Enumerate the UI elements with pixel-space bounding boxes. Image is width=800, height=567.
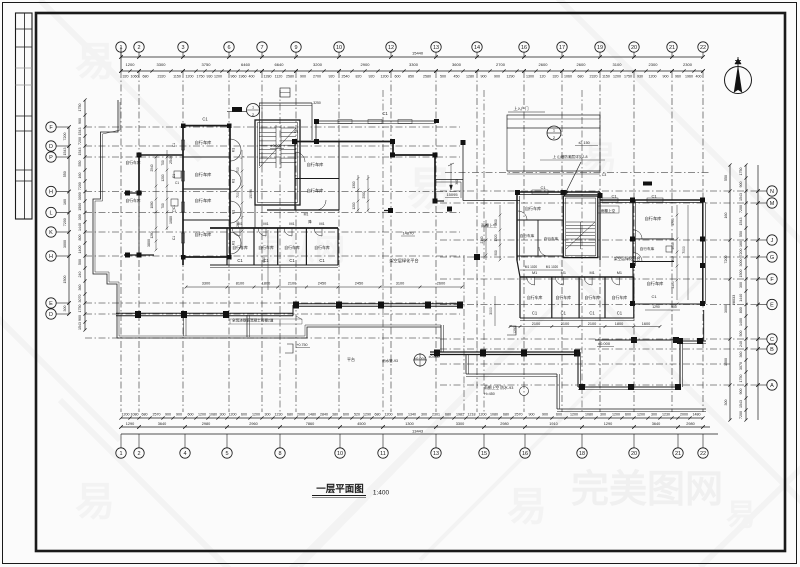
svg-text:5: 5 xyxy=(225,451,228,457)
svg-text:6640: 6640 xyxy=(275,62,285,67)
svg-text:3000: 3000 xyxy=(489,307,493,315)
svg-text:13: 13 xyxy=(433,45,439,51)
svg-text:960: 960 xyxy=(231,75,237,79)
svg-text:G: G xyxy=(770,255,774,261)
svg-text:800: 800 xyxy=(739,307,743,313)
svg-text:1750: 1750 xyxy=(739,168,743,176)
svg-text:C1: C1 xyxy=(611,194,617,199)
svg-text:雨棚上空: 雨棚上空 xyxy=(601,208,616,213)
svg-text:1981: 1981 xyxy=(456,413,464,417)
svg-text:950: 950 xyxy=(671,256,675,262)
svg-text:1200: 1200 xyxy=(186,75,194,79)
svg-text:自行车库: 自行车库 xyxy=(544,236,559,241)
svg-text:C1: C1 xyxy=(237,258,243,263)
svg-text:±0.000: ±0.000 xyxy=(598,341,611,346)
svg-text:20: 20 xyxy=(631,45,637,51)
svg-text:3000: 3000 xyxy=(78,192,82,200)
svg-text:1500: 1500 xyxy=(724,358,728,366)
svg-text:500: 500 xyxy=(78,259,82,265)
svg-text:300: 300 xyxy=(421,413,427,417)
svg-text:3070: 3070 xyxy=(739,362,743,370)
svg-text:600: 600 xyxy=(397,413,403,417)
svg-text:1: 1 xyxy=(252,106,254,110)
svg-text:900: 900 xyxy=(176,413,182,417)
svg-text:360: 360 xyxy=(78,285,82,291)
svg-text:自行车库: 自行车库 xyxy=(640,246,655,251)
svg-text:2100: 2100 xyxy=(288,282,296,286)
svg-text:700: 700 xyxy=(236,192,240,198)
svg-text:3600: 3600 xyxy=(452,62,462,67)
svg-text:680: 680 xyxy=(375,413,381,417)
svg-text:1290: 1290 xyxy=(604,422,612,426)
svg-text:2450: 2450 xyxy=(355,282,363,286)
svg-text:6: 6 xyxy=(227,45,230,51)
svg-text:M1: M1 xyxy=(232,148,236,153)
svg-text:6460: 6460 xyxy=(241,62,251,67)
svg-text:2000: 2000 xyxy=(680,413,688,417)
svg-text:3300: 3300 xyxy=(409,62,419,67)
svg-text:360: 360 xyxy=(739,352,743,358)
svg-text:1080: 1080 xyxy=(585,413,593,417)
svg-text:3100: 3100 xyxy=(396,282,404,286)
svg-text:380: 380 xyxy=(332,413,338,417)
svg-text:1400: 1400 xyxy=(739,318,743,326)
svg-text:320: 320 xyxy=(553,75,559,79)
svg-text:P: P xyxy=(49,155,53,161)
svg-text:F: F xyxy=(770,277,774,283)
svg-text:1080: 1080 xyxy=(490,413,498,417)
svg-text:K: K xyxy=(49,230,53,236)
svg-text:10: 10 xyxy=(337,451,343,457)
svg-text:900: 900 xyxy=(663,75,669,79)
svg-text:1750: 1750 xyxy=(624,75,632,79)
svg-text:雨水管-93: 雨水管-93 xyxy=(382,358,398,363)
svg-text:3000: 3000 xyxy=(724,305,728,313)
svg-text:3100: 3100 xyxy=(613,62,623,67)
svg-text:M1: M1 xyxy=(589,271,594,275)
svg-text:自行车库: 自行车库 xyxy=(525,205,541,211)
svg-text:2301: 2301 xyxy=(432,413,440,417)
svg-text:10: 10 xyxy=(336,45,342,51)
svg-text:2580: 2580 xyxy=(423,75,431,79)
svg-text:700: 700 xyxy=(161,203,165,209)
svg-text:550: 550 xyxy=(63,171,67,177)
svg-text:300: 300 xyxy=(600,413,606,417)
svg-text:1200: 1200 xyxy=(613,75,621,79)
svg-text:3800: 3800 xyxy=(147,239,151,247)
svg-text:160: 160 xyxy=(724,213,728,219)
svg-text:2140: 2140 xyxy=(480,236,484,243)
svg-text:1200: 1200 xyxy=(252,413,260,417)
svg-text:M1: M1 xyxy=(532,271,537,275)
svg-text:21: 21 xyxy=(675,451,681,457)
svg-text:300: 300 xyxy=(494,219,498,225)
svg-text:1060: 1060 xyxy=(131,75,139,79)
svg-text:2700: 2700 xyxy=(313,75,321,79)
svg-text:C1: C1 xyxy=(651,294,657,299)
svg-text:1750: 1750 xyxy=(78,305,82,313)
svg-text:1440: 1440 xyxy=(739,294,743,302)
svg-text:300: 300 xyxy=(78,214,82,220)
svg-text:1150: 1150 xyxy=(173,75,181,79)
svg-text:平台: 平台 xyxy=(347,356,355,362)
svg-text:1080: 1080 xyxy=(169,216,173,224)
svg-text:300: 300 xyxy=(739,282,743,288)
svg-text:680: 680 xyxy=(142,413,148,417)
svg-text:M1: M1 xyxy=(617,271,622,275)
svg-text:H: H xyxy=(49,254,53,260)
svg-text:2100: 2100 xyxy=(561,322,569,326)
svg-text:3250: 3250 xyxy=(313,101,321,105)
svg-text:1750: 1750 xyxy=(197,75,205,79)
svg-text:1543: 1543 xyxy=(739,218,743,226)
svg-text:300: 300 xyxy=(455,179,459,185)
svg-text:A: A xyxy=(770,383,774,389)
svg-text:C1: C1 xyxy=(532,311,538,316)
svg-text:1200: 1200 xyxy=(198,413,206,417)
svg-text:1:400: 1:400 xyxy=(373,490,390,497)
svg-text:3000: 3000 xyxy=(739,259,743,267)
svg-text:900: 900 xyxy=(529,413,535,417)
svg-text:3300: 3300 xyxy=(157,62,167,67)
svg-text:易: 易 xyxy=(407,163,453,215)
svg-text:C: C xyxy=(770,337,774,343)
svg-text:M1 1020: M1 1020 xyxy=(525,265,538,269)
svg-text:M1: M1 xyxy=(319,222,324,226)
svg-text:上 山墙防潮层详见2-8: 上 山墙防潮层详见2-8 xyxy=(553,154,588,159)
svg-text:M1 1020: M1 1020 xyxy=(546,265,559,269)
svg-text:C1: C1 xyxy=(175,181,179,185)
svg-text:易: 易 xyxy=(726,499,756,532)
svg-text:C1: C1 xyxy=(589,311,595,316)
svg-text:1280: 1280 xyxy=(236,221,240,229)
svg-text:1543: 1543 xyxy=(78,322,82,330)
svg-text:1050: 1050 xyxy=(671,242,675,250)
svg-text:1080: 1080 xyxy=(131,413,139,417)
svg-text:2320: 2320 xyxy=(158,75,166,79)
svg-text:J: J xyxy=(771,238,774,244)
svg-text:C1: C1 xyxy=(172,209,176,213)
svg-text:2: 2 xyxy=(137,451,140,457)
svg-text:600: 600 xyxy=(188,413,194,417)
svg-text:900: 900 xyxy=(300,75,306,79)
svg-text:2320: 2320 xyxy=(590,75,598,79)
svg-text:1230: 1230 xyxy=(662,413,670,417)
svg-text:1750: 1750 xyxy=(739,375,743,383)
svg-text:1320: 1320 xyxy=(494,234,498,241)
svg-text:2100: 2100 xyxy=(532,322,540,326)
svg-text:C1: C1 xyxy=(172,143,176,147)
svg-text:自行车库: 自行车库 xyxy=(612,295,628,300)
svg-text:7200: 7200 xyxy=(63,218,67,226)
svg-text:550: 550 xyxy=(739,231,743,237)
svg-text:7200: 7200 xyxy=(724,256,728,264)
svg-text:600: 600 xyxy=(625,413,631,417)
svg-text:2000: 2000 xyxy=(297,413,305,417)
svg-text:M: M xyxy=(770,201,775,207)
svg-text:自行车库: 自行车库 xyxy=(307,187,324,194)
svg-text:1480: 1480 xyxy=(308,413,316,417)
svg-text:1200: 1200 xyxy=(649,75,657,79)
svg-text:1290: 1290 xyxy=(507,75,515,79)
svg-text:240: 240 xyxy=(739,341,743,347)
svg-text:600: 600 xyxy=(241,413,247,417)
svg-text:N: N xyxy=(770,189,774,195)
svg-text:1230: 1230 xyxy=(275,413,283,417)
svg-text:9: 9 xyxy=(294,45,297,51)
svg-text:2580: 2580 xyxy=(286,75,294,79)
svg-text:+0.750: +0.750 xyxy=(296,343,307,347)
svg-text:1: 1 xyxy=(119,451,122,457)
svg-text:易: 易 xyxy=(75,40,115,84)
svg-text:680: 680 xyxy=(287,413,293,417)
svg-text:自行车库: 自行车库 xyxy=(314,245,330,250)
svg-text:1910: 1910 xyxy=(549,422,557,426)
svg-text:1200: 1200 xyxy=(385,413,393,417)
svg-text:300: 300 xyxy=(724,400,728,406)
svg-text:降: 降 xyxy=(308,219,312,224)
svg-text:1300: 1300 xyxy=(405,422,413,426)
svg-text:自行车库: 自行车库 xyxy=(125,160,140,165)
svg-text:2100: 2100 xyxy=(588,322,596,326)
svg-text:14: 14 xyxy=(474,45,480,51)
svg-text:2980: 2980 xyxy=(500,422,508,426)
svg-text:15: 15 xyxy=(481,451,487,457)
svg-text:4500: 4500 xyxy=(357,422,365,426)
svg-text:易: 易 xyxy=(75,480,115,524)
svg-text:400: 400 xyxy=(249,75,255,79)
svg-text:1600: 1600 xyxy=(642,322,650,326)
svg-text:13: 13 xyxy=(433,451,439,457)
svg-text:2: 2 xyxy=(553,135,556,140)
svg-text:一层平面图: 一层平面图 xyxy=(316,484,364,495)
svg-text:320: 320 xyxy=(123,75,129,79)
svg-text:1960: 1960 xyxy=(239,75,247,79)
svg-text:3640: 3640 xyxy=(158,422,166,426)
svg-text:自行车库: 自行车库 xyxy=(520,233,535,238)
svg-text:3000: 3000 xyxy=(63,240,67,248)
svg-text:2540: 2540 xyxy=(169,156,173,164)
svg-text:28033: 28033 xyxy=(732,295,736,306)
svg-text:M1: M1 xyxy=(263,222,268,226)
svg-text:1800: 1800 xyxy=(615,322,623,326)
svg-text:900: 900 xyxy=(542,413,548,417)
svg-text:900: 900 xyxy=(78,315,82,321)
svg-text:900: 900 xyxy=(165,413,171,417)
svg-text:1200: 1200 xyxy=(161,174,165,181)
svg-text:1200: 1200 xyxy=(612,413,620,417)
svg-text:160: 160 xyxy=(63,199,67,205)
svg-text:1300: 1300 xyxy=(352,181,356,188)
svg-text:12: 12 xyxy=(388,45,394,51)
svg-text:300: 300 xyxy=(265,413,271,417)
svg-text:1218: 1218 xyxy=(468,413,476,417)
svg-text:450: 450 xyxy=(454,75,460,79)
svg-text:1340: 1340 xyxy=(408,413,416,417)
svg-text:1200: 1200 xyxy=(352,202,356,209)
svg-text:900: 900 xyxy=(739,389,743,395)
svg-text:300: 300 xyxy=(651,413,657,417)
svg-text:1480: 1480 xyxy=(693,413,701,417)
svg-text:2980: 2980 xyxy=(686,422,694,426)
svg-text:E: E xyxy=(49,301,53,307)
svg-text:2900: 2900 xyxy=(361,62,371,67)
svg-text:1290: 1290 xyxy=(126,422,134,426)
svg-text:雨棚上空 防水-93: 雨棚上空 防水-93 xyxy=(484,385,513,390)
svg-text:1543: 1543 xyxy=(63,148,67,156)
svg-text:600: 600 xyxy=(343,413,349,417)
svg-text:3750: 3750 xyxy=(202,62,212,67)
svg-text:7200: 7200 xyxy=(739,411,743,419)
svg-text:7200: 7200 xyxy=(63,133,67,141)
svg-text:1543: 1543 xyxy=(78,128,82,136)
svg-text:550: 550 xyxy=(78,161,82,167)
svg-text:11: 11 xyxy=(380,451,386,457)
svg-text:7200: 7200 xyxy=(78,137,82,145)
svg-text:7860: 7860 xyxy=(306,422,314,426)
svg-text:1200: 1200 xyxy=(479,413,487,417)
svg-text:2500: 2500 xyxy=(362,191,366,198)
svg-text:1200: 1200 xyxy=(637,413,645,417)
svg-text:自行车库: 自行车库 xyxy=(284,245,300,250)
svg-text:1280: 1280 xyxy=(466,75,474,79)
svg-text:930: 930 xyxy=(637,75,643,79)
svg-text:22: 22 xyxy=(700,45,706,51)
svg-text:400: 400 xyxy=(696,75,702,79)
svg-text:520: 520 xyxy=(354,413,360,417)
svg-text:自行车库: 自行车库 xyxy=(527,295,543,300)
svg-text:680: 680 xyxy=(503,413,509,417)
svg-text:1700: 1700 xyxy=(671,218,675,226)
svg-text:820: 820 xyxy=(356,75,362,79)
svg-text:易: 易 xyxy=(507,485,547,529)
svg-text:1200: 1200 xyxy=(126,62,136,67)
svg-text:1300: 1300 xyxy=(671,281,675,289)
svg-text:800: 800 xyxy=(78,235,82,241)
svg-text:500: 500 xyxy=(739,331,743,337)
svg-text:全现浇钢筋混凝土雨棚2道: 全现浇钢筋混凝土雨棚2道 xyxy=(232,318,274,323)
svg-text:1300: 1300 xyxy=(526,75,534,79)
svg-text:550: 550 xyxy=(724,175,728,181)
svg-text:16: 16 xyxy=(522,451,528,457)
svg-text:19: 19 xyxy=(597,45,603,51)
svg-text:C3: C3 xyxy=(602,173,607,177)
svg-text:1120: 1120 xyxy=(275,75,283,79)
svg-text:1080: 1080 xyxy=(150,201,154,208)
svg-text:2: 2 xyxy=(137,45,140,51)
svg-text:21: 21 xyxy=(669,45,675,51)
svg-text:2600: 2600 xyxy=(577,62,587,67)
svg-text:900: 900 xyxy=(481,75,487,79)
svg-text:C1: C1 xyxy=(651,194,657,199)
svg-text:17: 17 xyxy=(559,45,565,51)
svg-text:C1: C1 xyxy=(172,236,176,240)
svg-text:±0.000: ±0.000 xyxy=(429,355,440,359)
svg-text:C1: C1 xyxy=(382,111,388,116)
svg-text:160: 160 xyxy=(739,241,743,247)
svg-text:3200: 3200 xyxy=(313,62,323,67)
svg-text:M1: M1 xyxy=(232,179,236,184)
svg-text:M1: M1 xyxy=(232,210,236,215)
svg-text:C1: C1 xyxy=(289,258,295,263)
svg-text:C1: C1 xyxy=(561,311,567,316)
svg-text:680: 680 xyxy=(445,413,451,417)
svg-text:自行车库: 自行车库 xyxy=(647,280,664,287)
svg-text:1280: 1280 xyxy=(150,231,154,238)
svg-text:16: 16 xyxy=(521,45,527,51)
svg-text:300: 300 xyxy=(63,306,67,312)
svg-text:1543: 1543 xyxy=(78,148,82,156)
svg-text:14870: 14870 xyxy=(402,231,414,236)
svg-text:L: L xyxy=(49,211,52,217)
svg-text:900: 900 xyxy=(671,305,677,309)
svg-text:B: B xyxy=(770,347,774,353)
svg-text:2300: 2300 xyxy=(649,62,659,67)
svg-text:1060: 1060 xyxy=(564,75,572,79)
svg-text:900: 900 xyxy=(494,75,500,79)
svg-text:1290: 1290 xyxy=(652,305,660,309)
svg-text:15440: 15440 xyxy=(412,51,424,56)
svg-text:2540: 2540 xyxy=(342,75,350,79)
svg-text:300: 300 xyxy=(220,413,226,417)
svg-text:18: 18 xyxy=(579,451,585,457)
svg-text:20: 20 xyxy=(631,451,637,457)
svg-text:1290: 1290 xyxy=(513,326,517,334)
svg-text:850: 850 xyxy=(408,75,414,79)
svg-text:自行车库: 自行车库 xyxy=(645,215,662,222)
svg-text:240: 240 xyxy=(78,272,82,278)
svg-text:15095: 15095 xyxy=(446,192,458,197)
svg-text:C1: C1 xyxy=(202,117,208,122)
svg-text:3300: 3300 xyxy=(456,422,464,426)
svg-text:2600: 2600 xyxy=(437,282,445,286)
svg-text:架空层绿化平台: 架空层绿化平台 xyxy=(389,257,418,264)
svg-text:1150: 1150 xyxy=(602,75,610,79)
svg-text:1200: 1200 xyxy=(570,413,578,417)
svg-text:1800: 1800 xyxy=(262,282,270,286)
svg-text:15096: 15096 xyxy=(249,189,253,199)
svg-text:自行车库: 自行车库 xyxy=(307,161,324,168)
svg-text:H: H xyxy=(49,190,53,196)
svg-text:自行车库: 自行车库 xyxy=(125,198,140,203)
svg-text:7200: 7200 xyxy=(739,249,743,257)
svg-text:架空层绿化平台: 架空层绿化平台 xyxy=(614,256,641,261)
svg-text:500: 500 xyxy=(440,75,446,79)
svg-text:2980: 2980 xyxy=(202,422,210,426)
svg-text:E: E xyxy=(770,303,774,309)
svg-text:120: 120 xyxy=(540,75,546,79)
svg-text:自行车库: 自行车库 xyxy=(556,295,572,300)
svg-text:2600: 2600 xyxy=(539,62,549,67)
svg-text:±2.150: ±2.150 xyxy=(578,141,590,145)
svg-text:7200: 7200 xyxy=(739,205,743,213)
svg-text:500: 500 xyxy=(494,250,498,256)
svg-text:2300: 2300 xyxy=(683,62,693,67)
svg-text:22: 22 xyxy=(700,451,706,457)
svg-text:M1: M1 xyxy=(304,213,309,217)
svg-text:自行车库: 自行车库 xyxy=(258,245,274,250)
svg-text:自行车库: 自行车库 xyxy=(584,295,600,300)
svg-text:1400: 1400 xyxy=(78,246,82,254)
svg-text:8100: 8100 xyxy=(236,282,244,286)
svg-text:7000: 7000 xyxy=(682,246,686,254)
svg-text:1500: 1500 xyxy=(63,276,67,284)
svg-text:完美图网: 完美图网 xyxy=(571,468,723,511)
svg-text:3: 3 xyxy=(181,45,184,51)
svg-text:900: 900 xyxy=(78,118,82,124)
svg-text:1440: 1440 xyxy=(78,223,82,231)
svg-text:3640: 3640 xyxy=(652,422,660,426)
